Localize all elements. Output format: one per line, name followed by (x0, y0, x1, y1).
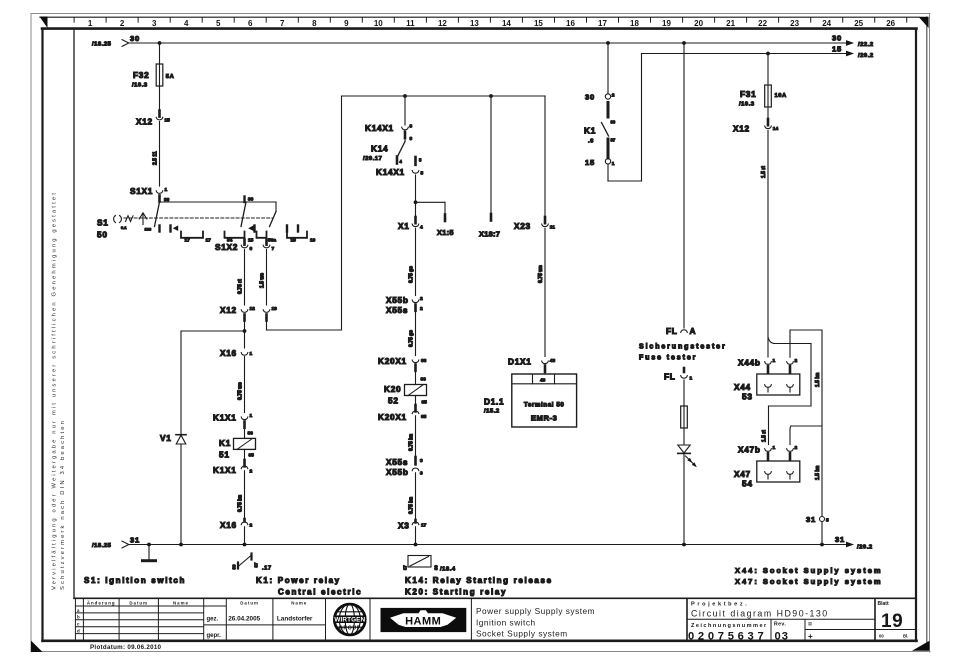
svg-text:7: 7 (280, 19, 285, 28)
schematic content inserted below (84, 34, 883, 597)
svg-text:3: 3 (410, 136, 413, 142)
wire X12:14 to X44b:1, 1.5 rt (761, 130, 768, 357)
svg-text:12: 12 (250, 306, 256, 312)
svg-text:52: 52 (388, 396, 399, 406)
wire K1 contact to rail 15 (608, 54, 642, 182)
wire X55b:3 to X3, 0.75 bn (409, 473, 416, 520)
svg-text:Bl.: Bl. (903, 634, 908, 639)
text fuse tester (639, 344, 727, 362)
svg-text:Ignition switch: Ignition switch (476, 618, 536, 628)
ruler ticks and column numbers (74, 17, 907, 22)
svg-text:2.5 11: 2.5 11 (153, 151, 159, 165)
svg-text:1: 1 (165, 187, 168, 193)
revision table rows (75, 605, 226, 607)
svg-text:gez.: gez. (207, 616, 219, 622)
svg-text:/20.17: /20.17 (363, 156, 382, 162)
svg-text:K14X1: K14X1 (376, 167, 405, 177)
svg-text:18: 18 (630, 19, 639, 28)
svg-text:1: 1 (773, 445, 776, 451)
svg-text:A: A (690, 326, 697, 336)
svg-text:1: 1 (88, 19, 93, 28)
svg-text:FL: FL (664, 372, 676, 382)
wire X16:1 to K1X1:1, 0.75 ws (238, 357, 245, 413)
fuse F32 5A (132, 64, 175, 89)
node junction V1 branch (243, 329, 247, 333)
svg-text:15: 15 (248, 238, 254, 244)
connector X16 pin 2 (220, 519, 253, 530)
svg-text:X47: X47 (734, 469, 751, 479)
svg-text:D1.1: D1.1 (484, 397, 504, 407)
svg-text:11: 11 (550, 225, 555, 231)
connector X12 pin 19 (263, 306, 277, 321)
svg-text:30: 30 (585, 93, 595, 102)
relay contact K14 (363, 138, 405, 164)
connector FL1 (664, 368, 693, 382)
HAMM logo (381, 608, 467, 632)
svg-text:19: 19 (881, 611, 903, 632)
K1 contact cross-reference below rail (232, 554, 272, 572)
node: junction 30/F32 (158, 41, 162, 45)
svg-text:87: 87 (254, 562, 259, 567)
connector X47b pin 1 (738, 445, 776, 460)
svg-text:50: 50 (97, 230, 108, 240)
wire X44b:2 up and over to bn line (790, 330, 822, 357)
svg-text:d: d (77, 629, 81, 634)
svg-text:X44: Socket Supply system: X44: Socket Supply system (735, 566, 883, 575)
svg-text:1: 1 (612, 161, 615, 167)
svg-text:24: 24 (822, 19, 831, 28)
svg-text:1: 1 (690, 376, 693, 382)
svg-text:22: 22 (758, 19, 767, 28)
svg-text:X47b: X47b (738, 445, 761, 455)
svg-text:Sicherungstester: Sicherungstester (639, 344, 727, 351)
wire branch around X44 to X47b:1 (762, 337, 812, 445)
node: junction 15/F31 (766, 52, 770, 56)
svg-text:31: 31 (835, 535, 845, 544)
node junction 31/X3 (414, 543, 418, 547)
svg-text:=: = (808, 622, 812, 629)
WIRTGEN GROUP logo (334, 604, 365, 635)
connector K20X1 pin 85 (378, 396, 427, 423)
svg-text:K1: K1 (584, 126, 596, 136)
relay coil K20 (384, 371, 427, 406)
svg-text:5A: 5A (166, 74, 175, 80)
svg-text:10A: 10A (775, 93, 788, 99)
svg-text:Datum: Datum (240, 600, 259, 605)
connector K14X1 pin 3 (365, 123, 413, 142)
svg-text:X3: X3 (398, 521, 410, 531)
svg-text:86: 86 (421, 377, 427, 383)
svg-text:11: 11 (406, 19, 415, 28)
wire S1 bus (160, 201, 277, 203)
svg-text:K1: Power relay: K1: Power relay (256, 576, 341, 585)
svg-text:X16: X16 (220, 520, 237, 530)
svg-text:Änderung: Änderung (87, 600, 116, 605)
svg-text:3.1: 3.1 (121, 225, 127, 230)
svg-text:X44: X44 (734, 382, 751, 392)
svg-text:EMR-3: EMR-3 (531, 414, 558, 423)
svg-text:5: 5 (216, 19, 221, 28)
svg-text:Name: Name (173, 600, 189, 605)
wire K20X1:85 to X55s:3, 0.75 bn (409, 416, 416, 457)
socket X47 (734, 461, 800, 489)
svg-text:00: 00 (879, 634, 884, 639)
connector K1X1 pin 1 (213, 413, 253, 428)
svg-text:6: 6 (248, 19, 253, 28)
svg-text:30: 30 (232, 564, 237, 569)
svg-text:15: 15 (165, 118, 171, 124)
svg-text:S1: Ignition switch: S1: Ignition switch (84, 576, 186, 585)
wire X23 to D1X1, 0.75 ws (538, 228, 545, 356)
svg-text:Plotdatum: 09.06.2010: Plotdatum: 09.06.2010 (90, 644, 162, 651)
net 15 rail (642, 51, 855, 57)
wire X1:4 to X55b:2, 0.75 ge (409, 228, 416, 295)
indicator LED of tester (678, 428, 697, 545)
svg-text:15: 15 (585, 158, 595, 167)
svg-text:86: 86 (248, 431, 254, 437)
connector X12 pin 12 (220, 305, 255, 321)
terminal 31.5 (806, 515, 829, 545)
node junction X1:5 branch (414, 200, 418, 204)
svg-text:10: 10 (374, 19, 383, 28)
wire 30 to F32 (159, 43, 161, 64)
svg-text:WIRTGEN: WIRTGEN (334, 617, 365, 624)
svg-text:43: 43 (540, 378, 546, 384)
connector X44b pin 2 (787, 358, 798, 373)
svg-text:Socket Supply system: Socket Supply system (476, 629, 568, 639)
svg-text:/10.3: /10.3 (132, 83, 148, 89)
connector K1X1 pin 2 (213, 449, 253, 475)
svg-text:Landstorfer: Landstorfer (277, 615, 313, 622)
wire branch to X1:5 stub (416, 202, 454, 237)
ground terminal on rail 31 (143, 543, 156, 561)
svg-text:4: 4 (420, 225, 423, 231)
svg-text:30: 30 (248, 197, 254, 203)
connector K14X1 pin 5 (376, 157, 424, 177)
socket X44 (734, 374, 800, 402)
wire 30 to K1 contact (607, 43, 609, 94)
svg-text:/20.2: /20.2 (857, 544, 873, 550)
svg-text:V1: V1 (160, 433, 172, 443)
svg-text:87: 87 (403, 565, 408, 570)
connector X47b pin 2 (787, 445, 798, 460)
svg-text:1.5 bn: 1.5 bn (815, 466, 821, 480)
svg-text:K14: K14 (371, 144, 388, 154)
svg-text:/20.2: /20.2 (858, 53, 874, 59)
svg-text:X12: X12 (733, 124, 750, 134)
connector S1X2 pin 7 (263, 240, 274, 253)
svg-text:14: 14 (773, 126, 779, 132)
net 30 top supply rail (122, 40, 854, 47)
node junction 31/X16 (243, 543, 247, 547)
svg-text:1: 1 (250, 413, 253, 419)
svg-text:85: 85 (421, 414, 427, 420)
svg-text:Circuit diagram HD90-130: Circuit diagram HD90-130 (691, 609, 829, 619)
svg-text:1.5 ws: 1.5 ws (260, 273, 266, 288)
svg-text:54: 54 (742, 479, 753, 489)
svg-text:X1: X1 (398, 221, 410, 231)
drawing frame (42, 27, 917, 30)
svg-text:Zeichnungsnummer: Zeichnungsnummer (691, 623, 768, 629)
svg-text:X55s: X55s (386, 305, 408, 315)
fuse F31 10A (739, 54, 787, 108)
svg-text:4: 4 (184, 19, 189, 28)
wire X55 to K20X1, 0.75 ge (409, 311, 416, 356)
S1 spare terminals 19/19 (287, 226, 316, 244)
rail labels (92, 34, 874, 551)
svg-text:17: 17 (185, 238, 191, 244)
svg-text:1: 1 (773, 358, 776, 364)
node junction bus/K14 (403, 94, 407, 98)
svg-text:19: 19 (310, 238, 316, 244)
svg-text:20: 20 (694, 19, 703, 28)
svg-text:X23: X23 (514, 221, 531, 231)
svg-text:02075637: 02075637 (688, 630, 767, 642)
svg-text:2: 2 (120, 19, 125, 28)
svg-text:14: 14 (502, 19, 511, 28)
connector X1 pin 4 (398, 217, 423, 231)
svg-text:K20X1: K20X1 (378, 356, 407, 366)
svg-text:K20X1: K20X1 (378, 412, 407, 422)
wire bus to K14X1:3 (404, 96, 406, 125)
svg-text:2: 2 (420, 296, 423, 302)
svg-text:0.75 bn: 0.75 bn (238, 495, 244, 512)
wire K1X1:2 to X16:2, 0.75 bn (238, 471, 245, 519)
connector X12 pin 14 (733, 107, 778, 134)
wire S1X2:6 to X12:12, 0.75 rt (238, 250, 245, 306)
svg-text:17: 17 (206, 238, 212, 244)
wire X12:12 down to junction (244, 315, 246, 349)
svg-text:1.5 rt: 1.5 rt (761, 166, 767, 178)
S1 actuator arrow (139, 213, 152, 232)
relay coil K1 (219, 428, 256, 460)
svg-text:3: 3 (420, 471, 423, 477)
svg-text:Projektbez.: Projektbez. (691, 601, 749, 607)
svg-text:X12: X12 (220, 305, 237, 315)
svg-text:0.75 ge: 0.75 ge (409, 330, 415, 347)
svg-text:17: 17 (598, 19, 607, 28)
svg-text:0.75 rt: 0.75 rt (238, 279, 244, 294)
svg-text:2: 2 (795, 445, 798, 451)
svg-text:2: 2 (612, 93, 615, 99)
svg-text:b: b (77, 615, 81, 620)
svg-text:/22.2: /22.2 (858, 42, 874, 48)
wire X12:19 to riser (267, 96, 342, 330)
svg-text:Name: Name (291, 600, 307, 605)
svg-text:0.75 ws: 0.75 ws (238, 382, 244, 400)
svg-text:50a: 50a (268, 238, 276, 244)
stub X18:7 (479, 96, 500, 239)
wire K14X1:5 down (415, 175, 417, 217)
svg-text:GROUP: GROUP (339, 625, 361, 631)
wire bus corner down (275, 202, 277, 212)
svg-text:19: 19 (662, 19, 671, 28)
svg-text:K20: K20 (384, 384, 401, 394)
svg-text:K14X1: K14X1 (365, 123, 394, 133)
svg-text:15: 15 (832, 45, 842, 54)
wire X16:2 to rail 31 (244, 527, 246, 545)
svg-text:21: 21 (726, 19, 735, 28)
svg-text:/18.4: /18.4 (440, 567, 456, 573)
svg-text:F32: F32 (133, 70, 149, 80)
svg-text:15: 15 (534, 19, 543, 28)
svg-text:13: 13 (470, 19, 479, 28)
svg-text:1: 1 (250, 351, 253, 357)
svg-text:Central electric: Central electric (278, 588, 362, 597)
svg-text:F31: F31 (740, 89, 756, 99)
svg-text:Blatt: Blatt (878, 601, 889, 607)
svg-text:19: 19 (291, 238, 297, 244)
svg-text:53: 53 (742, 392, 753, 402)
svg-text:0.75 bn: 0.75 bn (409, 434, 415, 451)
svg-text:X16: X16 (220, 348, 237, 358)
svg-text:Fuse tester: Fuse tester (639, 355, 697, 362)
svg-text:8: 8 (312, 19, 317, 28)
svg-text:26: 26 (886, 19, 895, 28)
wire X3 to rail 31 (415, 527, 417, 545)
svg-text:30: 30 (611, 120, 616, 125)
connector X55b/X55s pin 2 (386, 295, 423, 315)
svg-text:51: 51 (219, 450, 230, 460)
svg-text:X18:7: X18:7 (479, 230, 500, 239)
wire junction to V1 column (181, 330, 245, 332)
S1 bracket 50a (257, 232, 277, 244)
svg-text:0.75 ws: 0.75 ws (538, 265, 544, 283)
svg-text:2: 2 (795, 358, 798, 364)
S1 mechanical link dashed line (124, 217, 272, 219)
svg-text:K20: Starting relay: K20: Starting relay (405, 588, 507, 597)
svg-text:/10.3: /10.3 (739, 102, 755, 108)
fuse element of tester (681, 380, 688, 428)
controller D1.1 EMR-3 box (484, 372, 577, 427)
svg-text:1.5 rt: 1.5 rt (762, 430, 768, 442)
svg-text:c: c (77, 622, 80, 627)
svg-text:123: 123 (145, 227, 152, 232)
S1 terminal dashes col1 (160, 225, 179, 231)
svg-text:X47: Socket Supply system: X47: Socket Supply system (735, 577, 883, 586)
svg-text:6: 6 (250, 246, 253, 252)
svg-text:X55b: X55b (386, 467, 409, 477)
connector D1X1 pin 43 (508, 357, 555, 372)
svg-text:/15.2: /15.2 (484, 409, 500, 415)
svg-text:.17: .17 (262, 566, 272, 572)
svg-text:FL: FL (666, 326, 678, 336)
svg-text:D1X1: D1X1 (508, 357, 532, 367)
svg-text:gepr.: gepr. (207, 633, 222, 639)
svg-text:1.5 bn: 1.5 bn (815, 373, 821, 387)
svg-text:.6: .6 (588, 139, 594, 145)
connector X3 pin 17 (398, 520, 427, 531)
connector X23 pin 11 (514, 217, 555, 231)
svg-text:HAMM: HAMM (405, 616, 441, 628)
svg-text:9: 9 (344, 19, 349, 28)
S1 contact blade 2 with 30 terminal (241, 197, 254, 227)
S1 bracket 17/17 (181, 232, 211, 244)
svg-text:31: 31 (806, 515, 816, 524)
svg-text:K1X1: K1X1 (213, 465, 237, 475)
svg-text:Rev.: Rev. (774, 621, 786, 627)
svg-text:25: 25 (854, 19, 863, 28)
svg-text:/18.25: /18.25 (92, 42, 112, 48)
connector X55s/X55b pin 3 (386, 457, 423, 477)
node junction bus/X18 (489, 94, 493, 98)
svg-text:X55b: X55b (386, 295, 409, 305)
svg-text:S1X2: S1X2 (215, 242, 238, 252)
svg-text:19: 19 (272, 306, 278, 312)
svg-text:2: 2 (250, 469, 253, 475)
svg-text:3: 3 (420, 458, 423, 464)
S1 contact blade 3 (248, 212, 276, 232)
svg-text:3: 3 (410, 124, 413, 130)
svg-text:Schutzvermerk nach DIN 34 beac: Schutzvermerk nach DIN 34 beachten (60, 419, 66, 590)
svg-text:S1X1: S1X1 (130, 186, 153, 196)
svg-text:Terminal 50: Terminal 50 (524, 402, 565, 409)
svg-text:2: 2 (250, 523, 253, 529)
svg-text:5: 5 (421, 171, 424, 177)
connector X44b pin 1 (738, 358, 776, 373)
wire S1X2:7 to X12:19, 1.5 ws (260, 250, 267, 306)
svg-text:/18.25: /18.25 (92, 543, 112, 549)
svg-text:12: 12 (438, 19, 447, 28)
svg-text:Power supply Supply system: Power supply Supply system (476, 606, 595, 616)
svg-text:30: 30 (434, 565, 439, 570)
svg-text:17: 17 (421, 523, 427, 529)
node: junction 30/FL (682, 41, 686, 45)
svg-text:+: + (808, 632, 813, 641)
wire X12:15 to S1X1, 2.5 qmm (153, 122, 160, 187)
svg-text:87: 87 (611, 138, 616, 143)
svg-text:0.75 bn: 0.75 bn (409, 497, 415, 514)
svg-text:26.04.2005: 26.04.2005 (228, 615, 260, 622)
svg-text:K1X1: K1X1 (213, 413, 237, 423)
svg-text:3: 3 (152, 19, 157, 28)
wire F32 to X12:15 (159, 86, 161, 111)
svg-text:03: 03 (775, 630, 789, 642)
K20 contact cross-reference below rail (403, 556, 456, 573)
connector S1X1 pin 1 (130, 186, 170, 203)
svg-text:85: 85 (249, 453, 255, 459)
svg-text:X1:5: X1:5 (437, 228, 454, 237)
node: junction 30/K1 contact (606, 41, 610, 45)
svg-text:K14: Relay Starting release: K14: Relay Starting release (405, 576, 553, 585)
wire 1.5 bn return line (815, 330, 822, 516)
relay contact K1 30/87 (584, 93, 616, 168)
S1 contact blade 1 (155, 202, 160, 227)
svg-text:30: 30 (130, 34, 140, 43)
svg-text:16: 16 (566, 19, 575, 28)
connector X16 pin 1 (220, 348, 253, 358)
svg-text:Datum: Datum (129, 600, 148, 605)
wire bus corner to X23 (544, 96, 546, 221)
svg-text:5: 5 (826, 518, 829, 524)
svg-text:X55s: X55s (386, 457, 408, 467)
svg-text:7: 7 (272, 246, 275, 252)
svg-text:0.75 ge: 0.75 ge (409, 266, 415, 283)
connector X12 pin 15 (136, 111, 170, 127)
switch S1 labels (97, 218, 109, 240)
svg-text:43: 43 (550, 358, 556, 364)
connector K20X1 pin 86 (378, 356, 427, 371)
ruler band top line (40, 16, 919, 18)
connector S1X2 pin 6 (215, 240, 253, 253)
node junction 31/bn (820, 543, 824, 547)
switch S1 key symbol (114, 216, 133, 231)
svg-text:a: a (77, 608, 80, 613)
svg-text:K1: K1 (219, 438, 231, 448)
svg-text:86: 86 (421, 358, 427, 364)
wire branch to X47b:2 (790, 426, 822, 445)
svg-text:Vervielfältigung oder Weiterga: Vervielfältigung oder Weitergabe nur mit… (52, 191, 58, 590)
